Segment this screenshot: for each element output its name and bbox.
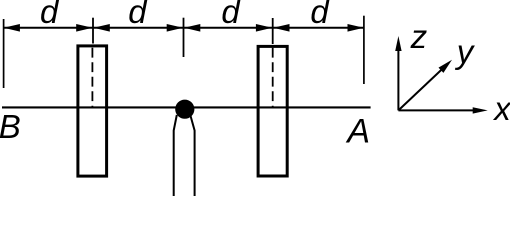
dashed centerline left bar	[91, 48, 93, 108]
z axis	[397, 50, 399, 110]
svg-text:d: d	[221, 0, 241, 30]
arrowhead pair at center tick	[167, 24, 183, 32]
tick mark at first quarter	[92, 18, 94, 44]
arrowhead pair at first tick	[76, 24, 92, 32]
svg-text:A: A	[345, 113, 370, 151]
arrowhead pair at third tick	[256, 24, 272, 32]
extension line right	[363, 16, 365, 84]
right bar rectangle	[258, 46, 287, 176]
left bar rectangle	[78, 46, 107, 176]
svg-text:x: x	[492, 90, 510, 127]
extension line left	[3, 19, 5, 88]
pivot support right leg	[190, 115, 194, 196]
x axis	[398, 109, 474, 111]
main beam line B to A	[2, 106, 371, 108]
svg-text:y: y	[455, 33, 476, 70]
svg-text:z: z	[410, 18, 428, 55]
pivot ball	[175, 100, 194, 119]
svg-text:d: d	[40, 0, 60, 30]
dimension line	[4, 27, 364, 29]
tick mark at third quarter	[272, 18, 274, 44]
svg-text:d: d	[128, 0, 148, 30]
svg-text:B: B	[0, 108, 21, 145]
tick mark at center	[183, 18, 185, 57]
arrowhead right end pointing right	[348, 24, 364, 32]
arrowhead left end pointing left	[4, 24, 20, 32]
svg-text:d: d	[310, 0, 330, 30]
pivot support left leg	[174, 115, 177, 196]
y axis	[398, 68, 443, 110]
dashed centerline right bar	[272, 48, 274, 108]
